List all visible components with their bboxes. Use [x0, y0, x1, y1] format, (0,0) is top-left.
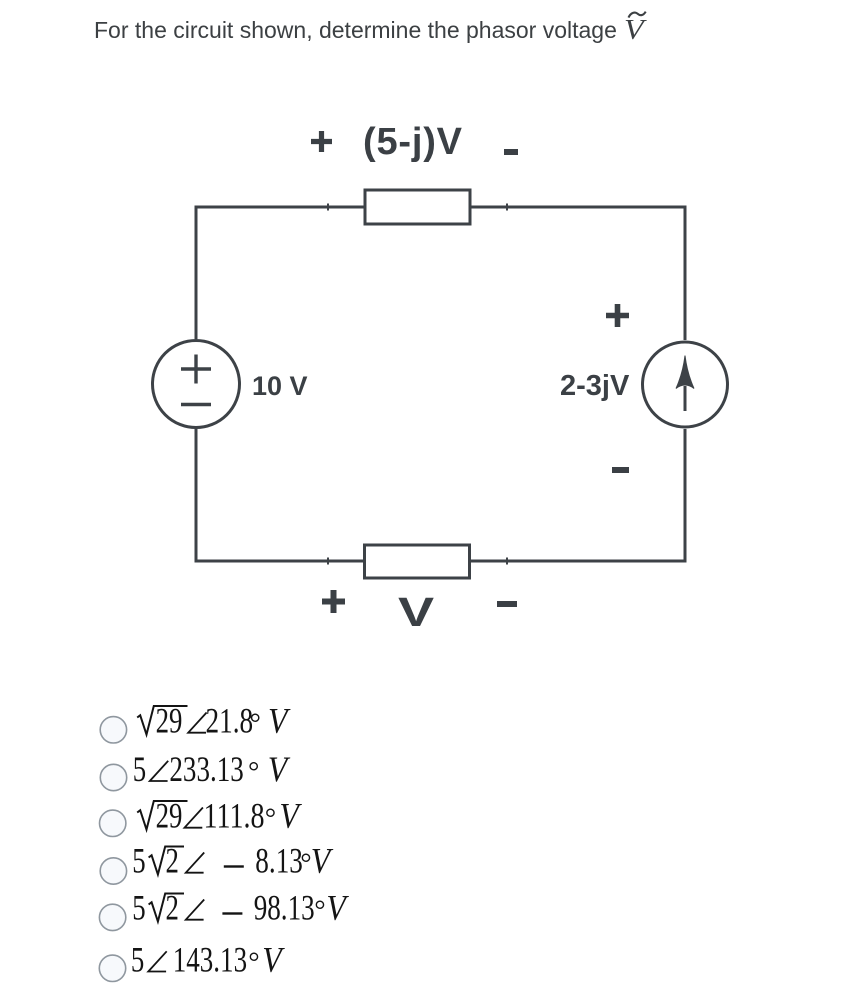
- label V (bottom resistor voltage): [398, 592, 434, 633]
- label plus sign of current source: [605, 303, 630, 328]
- label minus sign of V (bottom): [497, 601, 517, 607]
- label minus sign of current source: [612, 467, 629, 473]
- svg-text:°: °: [250, 709, 261, 740]
- label plus sign for (5-j)V: [309, 129, 334, 154]
- svg-text:29: 29: [156, 700, 183, 740]
- label 10 V: [252, 373, 308, 400]
- wire from R2 right to bottom-right corner: [470, 429, 686, 561]
- svg-text:2: 2: [166, 840, 179, 880]
- option radio 5: [99, 904, 125, 930]
- svg-text:°: °: [314, 896, 325, 927]
- option 4 minus sign: [224, 865, 244, 867]
- svg-text:V: V: [279, 797, 302, 836]
- label 2-3jV: [560, 372, 629, 401]
- current source IS1 circle: [643, 342, 728, 427]
- wire tick junction top-right: [506, 204, 508, 211]
- svg-text:143.13: 143.13: [173, 939, 247, 979]
- option 1 radical sign of sqrt(29): [137, 706, 187, 735]
- svg-text:5: 5: [133, 749, 146, 789]
- svg-text:V: V: [268, 702, 291, 741]
- label minus sign for (5-j)V: [504, 149, 518, 155]
- answer options block: [90, 700, 410, 999]
- svg-text:V: V: [326, 889, 349, 928]
- option radio 6: [99, 955, 125, 981]
- wire from R1 right to top-right corner: [470, 207, 685, 340]
- svg-text:5: 5: [131, 939, 144, 979]
- voltage source plus terminal: [181, 355, 211, 384]
- voltage source minus terminal: [181, 403, 211, 406]
- svg-text:111.8: 111.8: [204, 795, 265, 835]
- option 6 angle symbol: [148, 951, 166, 971]
- svg-text:V: V: [311, 842, 334, 881]
- label (5-j)V: [363, 123, 463, 161]
- top wire (node between V source + and resistor R1 left): [196, 207, 365, 339]
- phasor V tilde accent: [627, 9, 648, 22]
- svg-text:5: 5: [132, 840, 145, 880]
- wire tick junction bottom-left: [327, 558, 329, 565]
- svg-text:233.13: 233.13: [169, 749, 243, 789]
- option 4 radical sign of sqrt(2): [149, 847, 184, 875]
- title text: [94, 16, 617, 44]
- svg-text:5: 5: [132, 887, 145, 927]
- wire from VS1 bottom to bottom-left corner: [196, 429, 365, 562]
- svg-text:8.13: 8.13: [255, 840, 303, 880]
- svg-text:29: 29: [156, 795, 183, 835]
- option 4 angle symbol: [186, 853, 204, 873]
- option radio 4: [100, 858, 126, 884]
- svg-text:98.13: 98.13: [254, 887, 315, 927]
- svg-text:V: V: [268, 750, 291, 789]
- wire tick junction top-left: [327, 204, 329, 211]
- circuit schematic drawing: [0, 100, 858, 660]
- option 1 angle symbol: [188, 713, 206, 733]
- option 3 radical sign of sqrt(29): [137, 801, 187, 830]
- option radio 2: [100, 764, 126, 790]
- voltage source VS1 circle: [153, 341, 240, 428]
- svg-text:°: °: [248, 757, 259, 788]
- option 5 radical sign of sqrt(2): [149, 894, 184, 922]
- option 2 angle symbol: [150, 761, 168, 781]
- phasor V italic letter: [624, 17, 644, 45]
- resistor R1 (5-j) ohm top: [365, 190, 470, 224]
- option 3 angle symbol: [185, 808, 203, 828]
- option 5 minus sign: [222, 912, 242, 914]
- resistor R2 (V) bottom: [365, 545, 470, 578]
- svg-text:2: 2: [166, 887, 179, 927]
- svg-text:21.8: 21.8: [206, 700, 254, 740]
- option radio 3: [100, 810, 126, 836]
- option 5 angle symbol: [186, 900, 204, 920]
- option radio 1: [100, 717, 126, 743]
- current source arrow: [676, 356, 694, 412]
- label plus sign of V (bottom): [321, 589, 346, 614]
- wire tick junction bottom-right: [506, 558, 508, 565]
- svg-text:°: °: [265, 804, 276, 835]
- svg-text:°: °: [248, 947, 259, 978]
- svg-text:V: V: [262, 941, 285, 980]
